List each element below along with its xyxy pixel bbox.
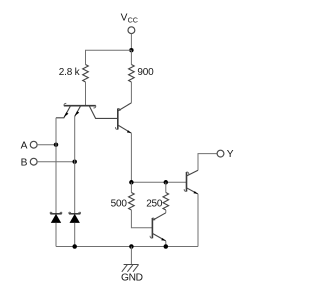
node wire (Q2 emitter node to Q3 base) (131, 181, 186, 183)
wire emitter1 vertical (55, 118, 57, 214)
transistor Q2 (phase splitter) (115, 103, 131, 133)
junction D2 (72, 244, 77, 249)
emitter 2 (75, 106, 81, 117)
node top junction (129, 48, 134, 53)
transistor Q3 (output) (184, 170, 198, 194)
svg-text:2.8 k: 2.8 k (59, 67, 81, 78)
wire emitter2 vertical (74, 117, 76, 214)
resistor 500 (111, 182, 135, 210)
wire Q3 emitter to bottom rail (197, 194, 199, 247)
collector lead (152, 213, 165, 221)
svg-text:Y: Y (227, 149, 234, 160)
svg-text:250: 250 (146, 198, 163, 209)
svg-text:V: V (121, 13, 128, 24)
svg-text:CC: CC (128, 15, 138, 24)
diode D2 (69, 212, 81, 246)
junction Q4 emitter (164, 244, 169, 249)
base bar (117, 109, 119, 130)
input A terminal (21, 140, 56, 151)
collector lead (187, 170, 199, 176)
wire top rail to 2.8k (86, 50, 132, 64)
svg-text:500: 500 (111, 198, 128, 209)
Vcc terminal (128, 27, 135, 34)
resistor 2.8 k (59, 65, 89, 83)
collector lead (89, 106, 117, 119)
input B terminal (21, 158, 75, 169)
transistor Q1 (multi-emitter input) (56, 103, 117, 118)
wire Q3 collector to Y (198, 154, 217, 171)
node B junction (72, 159, 77, 164)
svg-text:GND: GND (121, 273, 143, 284)
Vcc label (121, 13, 138, 25)
base bar (64, 105, 96, 107)
emitter lead with arrow (187, 188, 199, 194)
svg-text:900: 900 (137, 67, 154, 78)
emitter 1 (56, 106, 71, 118)
emitter lead with arrow (152, 233, 165, 241)
output Y terminal (217, 150, 224, 157)
wire 900 to Q2 collector (130, 82, 132, 103)
collector lead (118, 103, 132, 111)
resistor 250 (146, 182, 168, 210)
junction at 250 (164, 180, 169, 185)
wire 2.8k to Q1 base (85, 82, 87, 106)
ground symbol (121, 247, 143, 284)
svg-text:B: B (21, 158, 28, 169)
wire 250 to Q4 collector (165, 210, 167, 213)
svg-text:A: A (21, 140, 28, 151)
junction at 500 (129, 180, 134, 185)
wire Q2 emitter down to node (130, 133, 132, 182)
bottom ground rail (56, 246, 198, 248)
emitter lead with arrow (118, 125, 132, 133)
junction GND (129, 244, 134, 249)
wire 500 to Q4 base (131, 210, 152, 228)
transistor Q4 (squaring network) (150, 213, 166, 247)
node A junction (54, 142, 59, 147)
diode D1 (50, 212, 62, 246)
wire Vcc to top node (130, 34, 132, 51)
resistor 900 (129, 50, 155, 82)
